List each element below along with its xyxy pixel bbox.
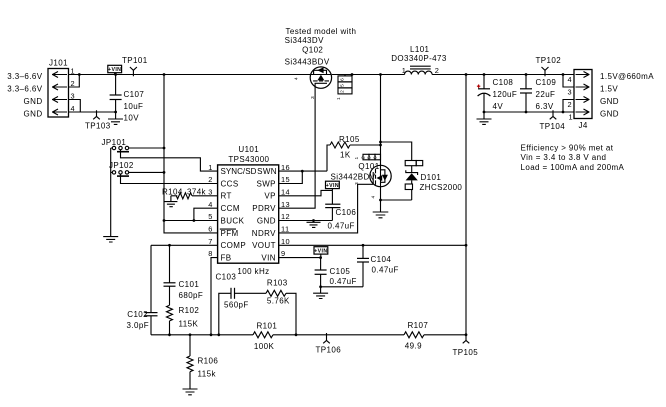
svg-text:120uF: 120uF	[493, 90, 518, 99]
PFM overline	[220, 228, 236, 230]
node junction bus/JP102	[163, 171, 166, 174]
wire COMP pin7 to compensation	[151, 244, 218, 246]
transistor Q101 Si3442BDV (N-FET)	[370, 165, 391, 186]
svg-text:R101: R101	[257, 321, 278, 330]
svg-text:4: 4	[71, 104, 76, 113]
resistor R107 49.9 (in bottom run)	[404, 332, 466, 338]
wire FB node bottom run	[151, 334, 252, 336]
svg-text:Si3442BDV: Si3442BDV	[331, 173, 376, 182]
svg-text:GND: GND	[24, 97, 43, 106]
wire SWN pin16 extension	[279, 170, 327, 172]
svg-text:6: 6	[340, 78, 346, 81]
inductor L101	[405, 66, 433, 74]
node junction C108 bottom	[483, 111, 486, 114]
svg-text:CCM: CCM	[221, 204, 240, 213]
wire VIN pin9	[279, 257, 321, 259]
wire Q102 gate to PDRV pin13	[279, 83, 315, 208]
svg-text:14: 14	[281, 187, 290, 196]
svg-text:TP105: TP105	[453, 348, 479, 357]
power +VIN flag (input rail)	[108, 65, 122, 74]
resistor R101 100K (in bottom run)	[252, 332, 404, 338]
svg-text:6.3V: 6.3V	[536, 102, 554, 111]
svg-text:FB: FB	[221, 254, 232, 263]
svg-text:1: 1	[336, 97, 342, 100]
svg-text:22uF: 22uF	[536, 90, 556, 99]
svg-text:+VIN: +VIN	[108, 67, 121, 73]
resistor R105 1K	[327, 142, 381, 171]
wire J4 pin2 tie to pin1	[563, 100, 574, 113]
svg-text:115k: 115k	[198, 370, 217, 379]
test point TP104	[550, 110, 557, 119]
IC U101 TPS43000	[218, 165, 279, 263]
node junction switch/D101	[379, 141, 382, 144]
svg-text:+VIN: +VIN	[314, 249, 327, 255]
svg-text:4: 4	[371, 195, 377, 198]
node junction J4 pin3 tie	[562, 73, 565, 76]
svg-text:11: 11	[281, 225, 289, 234]
node junction VIN/C105	[319, 256, 322, 259]
wire JP101 middle pin to SYNC/SD pin1	[121, 150, 218, 171]
node junction bus/JP101	[163, 147, 166, 150]
svg-text:GND: GND	[600, 97, 619, 106]
wire VOUT rail (L101 to J4)	[432, 74, 574, 76]
svg-text:C105: C105	[330, 267, 351, 276]
svg-text:2: 2	[568, 100, 573, 109]
node junction C103 leg	[217, 333, 220, 336]
node junction VOUT/output vertical	[465, 244, 468, 247]
svg-text:PFM: PFM	[221, 229, 239, 238]
ground (R106)	[183, 389, 198, 395]
ground (C107)	[108, 112, 123, 124]
svg-text:4V: 4V	[493, 102, 504, 111]
node junction J101 pins 1-2	[78, 73, 81, 76]
svg-text:Q101: Q101	[358, 162, 379, 171]
svg-text:Si3443BDV: Si3443BDV	[285, 58, 330, 67]
svg-text:TP104: TP104	[540, 122, 566, 131]
wire BUCK pin5	[164, 220, 218, 222]
svg-text:1.5V@660mA: 1.5V@660mA	[600, 72, 654, 81]
test point TP103	[93, 110, 100, 119]
IC pin numbers left	[208, 163, 213, 258]
wire VIN rail (Q102 to L101)	[332, 74, 405, 76]
svg-text:ZHCS2000: ZHCS2000	[420, 183, 463, 192]
svg-text:3: 3	[310, 96, 316, 99]
wire FB pin8 drop	[211, 258, 218, 335]
node junction R102 bottom	[168, 333, 171, 336]
wire Q101 source to ground node	[380, 187, 382, 200]
capacitor C108 120uF (polarized)	[478, 75, 491, 113]
ground (GND pin12)	[307, 221, 321, 228]
svg-text:VP: VP	[264, 192, 275, 201]
svg-text:R106: R106	[198, 357, 219, 366]
node junction bus/BUCK	[163, 219, 166, 222]
node junction C108	[483, 73, 486, 76]
svg-text:J4: J4	[579, 121, 588, 130]
svg-text:13: 13	[281, 200, 290, 209]
wire J101 pin3 tie to pin4	[69, 100, 81, 113]
svg-text:GND: GND	[600, 110, 619, 119]
svg-text:Vin = 3.4 to 3.8 V and: Vin = 3.4 to 3.8 V and	[521, 153, 607, 162]
svg-text:1: 1	[402, 66, 407, 75]
svg-text:C109: C109	[536, 78, 557, 87]
svg-text:L101: L101	[410, 45, 430, 54]
svg-text:2: 2	[361, 156, 367, 159]
svg-text:10uF: 10uF	[124, 102, 144, 111]
jumper JP102	[112, 171, 129, 176]
svg-text:TPS43000: TPS43000	[228, 155, 269, 164]
svg-text:4: 4	[568, 75, 573, 84]
svg-text:JP101: JP101	[102, 138, 127, 147]
wire C106 bottom to GND pin12	[279, 220, 333, 222]
svg-text:JP102: JP102	[109, 161, 134, 170]
svg-text:374k: 374k	[187, 188, 207, 197]
ground (Q101 source)	[373, 200, 389, 218]
svg-text:4: 4	[294, 77, 300, 80]
test point TP105	[463, 333, 470, 343]
svg-text:SYNC/SD: SYNC/SD	[221, 167, 257, 176]
svg-text:1: 1	[208, 163, 213, 172]
node junction switch/rail	[379, 73, 382, 76]
svg-text:R103: R103	[267, 279, 288, 288]
svg-text:R104: R104	[162, 188, 183, 197]
svg-text:3: 3	[568, 88, 573, 97]
svg-text:GND: GND	[257, 216, 276, 225]
wire input GND run J101 to C107 ground	[69, 111, 116, 113]
svg-text:0.47uF: 0.47uF	[372, 266, 399, 275]
svg-text:TP101: TP101	[122, 56, 148, 65]
pin numbers J101	[71, 66, 76, 113]
svg-text:GND: GND	[24, 110, 43, 119]
node junction C104 top	[362, 244, 365, 247]
wire VIN bus vertical to BUCK/PFM	[164, 75, 218, 233]
wire Q101 gate to NDRV pin11	[279, 184, 374, 233]
svg-text:Load = 100mA and 200mA: Load = 100mA and 200mA	[521, 163, 625, 172]
wire VIN rail (J101 to Q102)	[69, 74, 311, 76]
svg-text:BUCK: BUCK	[221, 216, 245, 225]
wire JP101/JP102 left pins to ground	[111, 148, 113, 237]
svg-text:10: 10	[281, 237, 290, 246]
svg-text:2: 2	[340, 90, 346, 93]
node junction SWN/SWP	[301, 170, 304, 173]
svg-text:TP103: TP103	[85, 122, 111, 131]
svg-text:5: 5	[208, 212, 213, 221]
svg-text:4: 4	[208, 200, 213, 209]
power +VIN flag (VIN pin9)	[314, 247, 328, 258]
IC pin names right	[252, 167, 277, 263]
svg-text:100K: 100K	[254, 342, 275, 351]
capacitor C101 680pF	[164, 245, 176, 305]
ground (R104)	[164, 196, 177, 207]
svg-text:TP106: TP106	[316, 346, 342, 355]
diode D101 ZHCS2000 (schottky)	[405, 170, 418, 200]
svg-text:Tested model with: Tested model with	[286, 27, 357, 36]
pin tag boxes D101 cathode	[405, 161, 423, 173]
svg-text:C106: C106	[336, 208, 357, 217]
resistor R103 5.76K	[266, 290, 296, 335]
wire J101 pin2 tie to pin1	[69, 75, 80, 88]
node junction Q101 source / D101 anode	[379, 199, 382, 202]
polarity plus mark (C108, red)	[477, 85, 480, 88]
svg-text:Q102: Q102	[302, 46, 323, 55]
connector J101	[48, 69, 69, 118]
node junction C107 bottom	[114, 111, 117, 114]
svg-text:49.9: 49.9	[405, 342, 422, 351]
svg-text:680pF: 680pF	[179, 291, 204, 300]
svg-text:3: 3	[354, 182, 360, 185]
node junction Q102 drain tags	[351, 73, 354, 76]
svg-text:C108: C108	[493, 78, 514, 87]
node junction C107 top	[114, 73, 117, 76]
svg-text:SWP: SWP	[256, 179, 275, 188]
svg-text:COMP: COMP	[221, 241, 247, 250]
svg-text:R102: R102	[179, 306, 200, 315]
node junction J4 pin2 tie	[562, 111, 565, 114]
node junction C105 bottom	[319, 285, 322, 288]
svg-text:1.5V: 1.5V	[600, 85, 618, 94]
node junction R105/switch	[379, 144, 382, 147]
svg-text:1: 1	[354, 156, 360, 159]
svg-text:VOUT: VOUT	[252, 241, 276, 250]
svg-text:C102: C102	[127, 310, 148, 319]
IC pin numbers right	[281, 163, 290, 258]
capacitor C107	[110, 75, 122, 113]
pin numbers Q101	[354, 156, 377, 198]
capacitor C104	[357, 245, 369, 286]
test point TP101	[130, 67, 137, 76]
pin digits Q101 tags	[361, 156, 379, 159]
svg-text:2: 2	[71, 79, 76, 88]
wire VOUT pin10 to output	[279, 244, 466, 246]
svg-text:3.0pF: 3.0pF	[127, 321, 149, 330]
svg-text:0.47uF: 0.47uF	[328, 221, 355, 230]
wire JP101 right pin to VIN bus	[129, 147, 164, 149]
svg-text:C107: C107	[124, 90, 145, 99]
wire SWP pin15 tie to SWN	[279, 171, 303, 183]
svg-text:1: 1	[569, 112, 574, 121]
wire C104 bottom to C105 bottom	[321, 286, 363, 288]
node junction divider/output vertical	[465, 333, 468, 336]
svg-text:C103: C103	[216, 273, 237, 282]
capacitor C105	[315, 258, 327, 287]
svg-text:C104: C104	[371, 255, 392, 264]
node junction R103 leg bottom	[295, 333, 298, 336]
svg-text:10V: 10V	[124, 113, 140, 122]
svg-text:115K: 115K	[179, 320, 199, 329]
svg-text:CCS: CCS	[221, 179, 239, 188]
svg-text:RT: RT	[221, 192, 232, 201]
pin numbers J4	[568, 75, 574, 121]
wire VP pin14 to +VIN/C106	[279, 190, 333, 195]
jumper JP101	[112, 146, 129, 151]
wire output GND run (C108 to J4)	[484, 111, 574, 113]
svg-text:2: 2	[435, 66, 440, 75]
connector J4	[574, 70, 592, 119]
svg-text:8: 8	[208, 249, 213, 258]
wire switch node vertical (rail to Q101 drain)	[380, 75, 382, 166]
svg-text:TP102: TP102	[536, 56, 562, 65]
transistor Q102 Si3443BDV (P-FET)	[310, 67, 331, 88]
svg-text:1K: 1K	[340, 150, 351, 159]
svg-text:3: 3	[208, 187, 213, 196]
svg-text:2: 2	[208, 175, 213, 184]
pin tag boxes Q102 drain pins 2/5/6	[338, 75, 352, 94]
pin numbers Q102	[294, 77, 343, 100]
power +VIN flag (VP)	[326, 181, 340, 190]
svg-text:3.3–6.6V: 3.3–6.6V	[7, 72, 42, 81]
wire JP102 right pin to VIN bus	[129, 171, 164, 173]
node junction R106 top	[189, 333, 192, 336]
svg-text:C101: C101	[179, 280, 200, 289]
svg-text:5.76K: 5.76K	[267, 296, 290, 305]
svg-text:VIN: VIN	[261, 254, 276, 263]
svg-text:3.3–6.6V: 3.3–6.6V	[7, 85, 42, 94]
svg-text:0.47uF: 0.47uF	[330, 277, 357, 286]
svg-text:6: 6	[208, 225, 213, 234]
pin tag boxes Q101 drain pins 2/5/6	[363, 154, 381, 160]
capacitor C109 22uF	[520, 75, 532, 113]
svg-text:NDRV: NDRV	[252, 229, 276, 238]
svg-text:5: 5	[340, 84, 346, 87]
svg-text:15: 15	[281, 175, 290, 184]
ground (C105)	[313, 287, 328, 299]
node junction FB drop	[210, 333, 213, 336]
svg-text:16: 16	[281, 163, 290, 172]
svg-text:3: 3	[71, 91, 76, 100]
node junction output vertical	[465, 73, 468, 76]
svg-text:DO3340P-473: DO3340P-473	[391, 54, 447, 63]
test point TP102	[542, 67, 549, 76]
test point TP106	[323, 333, 330, 343]
svg-text:R107: R107	[408, 321, 429, 330]
resistor R104	[171, 193, 218, 199]
svg-text:U101: U101	[238, 145, 259, 154]
svg-text:100 kHz: 100 kHz	[237, 267, 269, 276]
node junction GND pin12	[312, 219, 315, 222]
svg-text:7: 7	[208, 237, 213, 246]
svg-text:Si3443DV: Si3443DV	[285, 36, 324, 45]
node junction CCM/BUCK	[193, 219, 196, 222]
svg-text:J101: J101	[49, 59, 68, 68]
resistor R102 115K	[167, 305, 173, 335]
svg-text:560pF: 560pF	[224, 301, 249, 310]
wire CCM pin4 tie to BUCK	[194, 208, 218, 220]
wire D101 anode to Q101 source	[381, 199, 412, 201]
svg-text:6: 6	[372, 156, 378, 159]
wire switch node to D101 cathode	[381, 142, 412, 161]
svg-text:+VIN: +VIN	[326, 183, 339, 189]
resistor R106 115k	[187, 335, 193, 389]
svg-text:Efficiency > 90% met at: Efficiency > 90% met at	[521, 143, 614, 152]
node junction C109 bottom	[525, 111, 528, 114]
ground (C108)	[477, 112, 492, 124]
svg-text:R105: R105	[339, 135, 360, 144]
svg-text:5: 5	[367, 156, 373, 159]
capacitor C106	[325, 190, 340, 220]
capacitor C103 560pF	[219, 288, 266, 335]
pin digits Q102 tags	[340, 78, 346, 93]
ground (JP101/JP102)	[103, 237, 118, 242]
wire J4 pin3 tie to rail	[563, 75, 574, 88]
svg-text:1: 1	[71, 66, 76, 75]
node junction C109	[525, 73, 528, 76]
wire JP102 middle pin to CCS pin2	[121, 174, 218, 183]
svg-text:9: 9	[281, 249, 286, 258]
svg-text:D101: D101	[421, 173, 442, 182]
node junction COMP/C101	[168, 244, 171, 247]
capacitor C102 3.0pF (in COMP leg)	[145, 245, 158, 334]
node junction JP bus top	[163, 73, 166, 76]
wire output sense vertical (rail to divider)	[465, 75, 467, 335]
svg-text:PDRV: PDRV	[252, 204, 276, 213]
svg-text:12: 12	[281, 212, 290, 221]
svg-text:SWN: SWN	[257, 167, 277, 176]
